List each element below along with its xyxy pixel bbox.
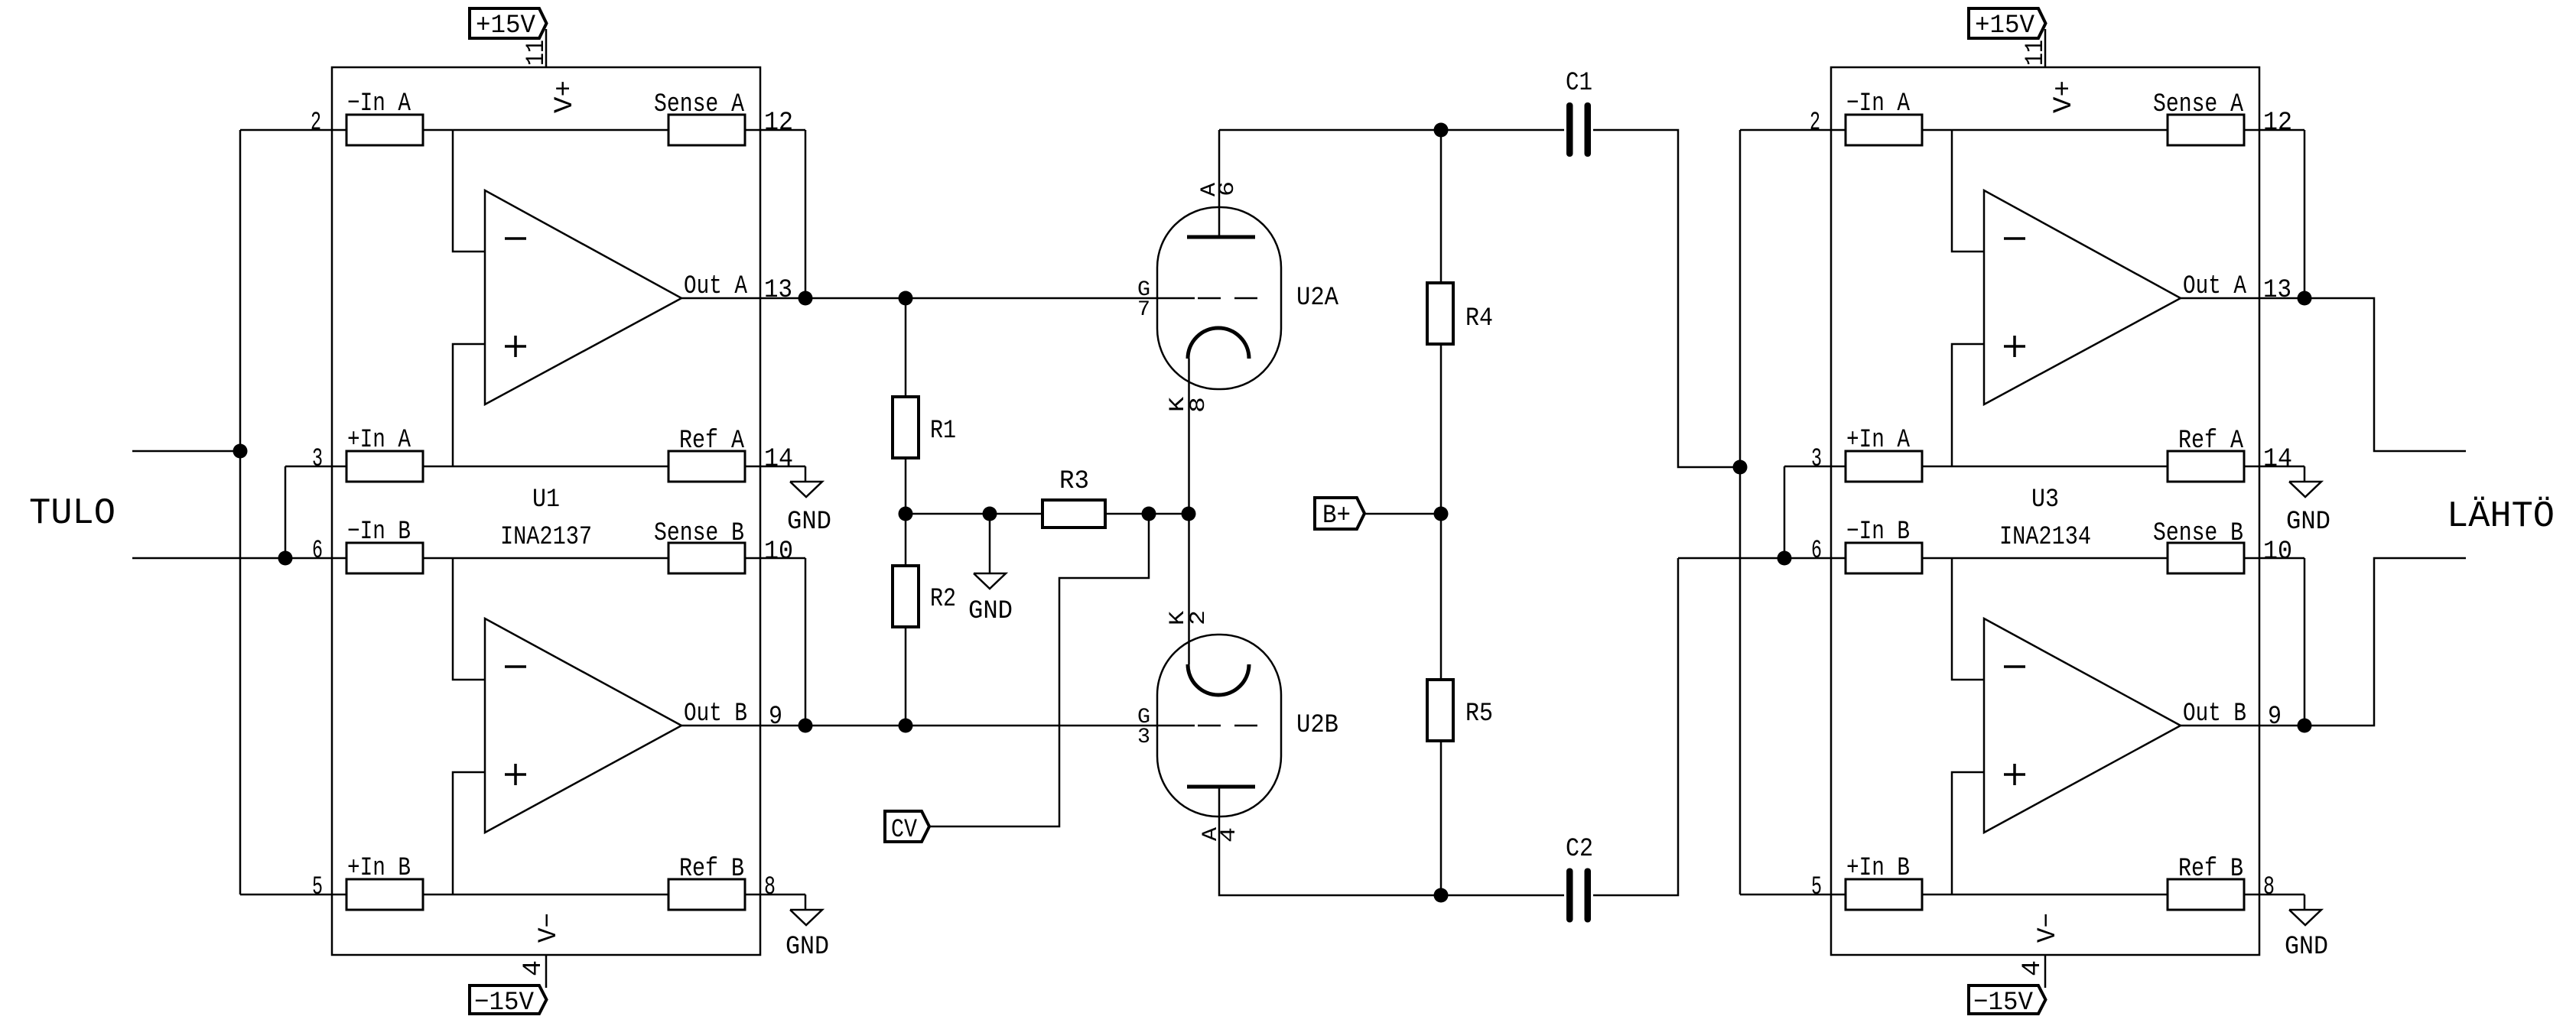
svg-text:INA2137: INA2137 [500,523,592,552]
svg-text:14: 14 [2263,445,2292,474]
svg-text:R4: R4 [1465,304,1493,333]
wire pin5 row (+In B) U3 [1740,894,2304,896]
svg-text:U2A: U2A [1296,284,1339,313]
svg-text:−In B: −In B [347,518,411,547]
wire pin2 row (-In A) U1 [240,129,805,131]
svg-text:INA2134: INA2134 [1999,523,2091,552]
svg-text:C2: C2 [1566,835,1593,864]
junction rail / cathodes [1182,507,1196,521]
wire input 1 from TULO [132,450,240,453]
svg-text:8: 8 [2263,873,2275,902]
wire -inA stub U1 [453,130,485,252]
svg-text:R5: R5 [1465,700,1493,729]
wire V- pin 4 U3 [2044,955,2047,988]
wire +inB stub U3 [1952,772,1984,895]
wire Ref A drop to GND (U3) [2304,466,2306,482]
junction B+ / R4 / R5 [1434,507,1449,521]
junction input1/left vertical [233,444,248,459]
wire Ref B drop to GND (U1) [805,895,807,910]
wire pin6 row (-In B) U1 / input 2 from TULO [132,557,805,560]
wire Ref A drop to GND (U1) [805,466,807,482]
wire rail to GND [989,514,991,573]
svg-text:−In A: −In A [1846,89,1910,119]
svg-text:Out B: Out B [2183,700,2246,729]
junction Sense A / Out A (U1) [798,291,813,306]
svg-text:−In A: −In A [347,89,411,119]
triode U2A envelope [1157,207,1281,389]
svg-text:U1: U1 [532,485,560,515]
svg-text:4: 4 [1218,827,1241,843]
wire C1 to U3 input A [1593,130,1740,467]
op-amp A plus mark U1 [505,345,526,348]
svg-text:6: 6 [1811,537,1822,566]
wire pin3 jog vertical right [1784,466,1786,558]
svg-text:+15V: +15V [1975,11,2035,41]
resistor R2 [905,514,907,566]
wire Out A (U3) to LAHTO upper [2181,298,2466,451]
op-amp A triangle U1 [485,190,681,404]
svg-text:Sense B: Sense B [654,519,744,548]
svg-text:Out A: Out A [2183,272,2246,301]
capacitor C1 [1566,102,1573,157]
pin box Ref B U3 (pin 8) [2168,879,2244,910]
svg-text:+In B: +In B [1846,854,1910,883]
svg-text:14: 14 [764,445,793,474]
svg-text:U3: U3 [2031,485,2059,515]
wire cathode rail left of R3 [906,513,1042,515]
power flag -15V U1 [470,985,547,1014]
svg-text:4: 4 [519,960,548,976]
svg-text:12: 12 [764,109,793,138]
svg-text:−15V: −15V [474,989,535,1018]
junction R2 / Out B [899,719,913,733]
wire Sense B drop to Out B (U3) [2304,558,2306,726]
triode U2B envelope [1157,635,1281,817]
power flag B+ [1315,498,1364,529]
op-amp B minus mark U1 [505,665,526,668]
svg-text:−15V: −15V [1973,989,2034,1018]
svg-text:8: 8 [1187,397,1211,413]
svg-text:GND: GND [785,933,829,962]
svg-text:11: 11 [2021,40,2051,66]
wire vertical pin2-pin5 bus right [1739,130,1742,895]
pin box Sense A U3 (pin 12) [2168,115,2244,145]
svg-text:Ref B: Ref B [2178,855,2243,884]
wire +inB stub U1 [453,772,485,895]
pin box +In B U1 (pin 5) [346,879,423,910]
svg-text:Sense A: Sense A [654,90,744,119]
op-amp A plus mark U3 [2004,345,2025,348]
svg-text:Out B: Out B [684,700,747,729]
IC body U1 (INA2137) [332,67,760,955]
svg-text:GND: GND [2286,508,2330,537]
svg-text:2: 2 [311,109,321,138]
pin box Ref A U1 (pin 14) [668,451,745,482]
IC body U3 (INA2134) [1831,67,2259,955]
pin box Sense B U1 (pin 10) [668,543,745,573]
svg-text:10: 10 [764,537,793,567]
wire Out B (U3) to LAHTO lower [2181,558,2466,726]
svg-text:Ref A: Ref A [2178,427,2243,456]
wire pin5 row (+In B) U1 [240,894,805,896]
pin box +In A U1 (pin 3) [346,451,423,482]
svg-text:7: 7 [1137,298,1150,322]
pin box Ref A U3 (pin 14) [2168,451,2244,482]
wire V+ pin 11 U1 [545,29,548,67]
svg-text:GND: GND [2285,933,2328,962]
op-amp B plus mark U1 [505,773,526,776]
wire CV to rail [929,514,1149,826]
capacitor C2 [1566,869,1573,923]
svg-text:GND: GND [968,597,1013,626]
ground symbol Ref B (U1) [790,910,822,925]
svg-text:10: 10 [2263,537,2292,567]
resistor R1 [905,298,907,397]
svg-text:2: 2 [1187,610,1211,625]
svg-text:13: 13 [2263,276,2291,305]
svg-text:3: 3 [1137,726,1150,749]
wire +inA stub U3 [1952,344,1984,466]
wire Sense B drop to Out B (U1) [805,558,807,726]
wire U2B cathode pin 2 to rail [1188,514,1190,664]
op-amp A triangle U3 [1984,190,2181,404]
pin box -In B U1 (pin 6) [346,543,423,573]
svg-text:2: 2 [1810,109,1820,138]
svg-text:3: 3 [312,445,323,474]
junction C2 feed / pin3 jog right [1778,551,1792,566]
svg-text:R2: R2 [930,585,956,614]
svg-text:Ref B: Ref B [679,855,744,884]
svg-text:TULO: TULO [29,493,115,534]
ground symbol Ref A (U3) [2289,482,2321,497]
resistor R5 [1440,514,1442,680]
wire -inB stub U1 [453,558,485,680]
svg-text:6: 6 [1216,181,1240,196]
op-amp B plus mark U3 [2004,773,2025,776]
wire U2A anode pin 6 [1218,130,1221,237]
wire V- pin 4 U1 [545,955,548,988]
svg-text:GND: GND [787,508,831,537]
svg-text:9: 9 [2268,703,2282,732]
junction anode bottom / R5 [1434,888,1449,903]
op-amp B triangle U1 [485,619,681,833]
svg-text:6: 6 [312,537,323,566]
junction rail / CV riser [1142,507,1156,521]
triode U2A cathode arc [1188,328,1249,359]
pin box -In A U3 (pin 2) [1846,115,1922,145]
svg-text:11: 11 [522,40,551,66]
svg-text:B+: B+ [1322,502,1351,531]
wire vertical pin2-pin5 bus left [239,130,242,895]
svg-text:5: 5 [312,873,323,902]
svg-text:R1: R1 [930,417,956,446]
svg-text:+In B: +In B [347,854,411,883]
svg-text:8: 8 [764,873,776,902]
junction C1 feed / right vertical [1733,460,1748,475]
svg-text:9: 9 [769,703,782,732]
triode U2A anode plate [1187,235,1255,239]
triode U2B grid dashes [1198,725,1221,727]
power flag +15V U3 [1969,8,2046,38]
wire pin2 row (-In A) U3 [1740,129,2304,131]
resistor R3 [1042,500,1105,528]
wire Ref B drop to GND (U3) [2304,895,2306,910]
pin box +In B U3 (pin 5) [1846,879,1922,910]
junction Sense B / Out B (U1) [798,719,813,733]
op-amp A minus mark U3 [2004,237,2025,240]
op-amp B triangle U3 [1984,619,2181,833]
wire V+ pin 11 U3 [2044,29,2047,67]
svg-text:−In B: −In B [1846,518,1910,547]
junction Sense A / Out A (U3) [2298,291,2312,306]
svg-text:5: 5 [1811,873,1822,902]
svg-text:Out A: Out A [684,272,747,301]
svg-text:4: 4 [2018,960,2047,976]
ground symbol mid rail [974,573,1006,589]
pin box +In A U3 (pin 3) [1846,451,1922,482]
wire pin3 row (+In A) U1 [285,466,805,468]
wire Out A (U1) to U2A grid [681,297,1195,300]
wire cathode rail right of R3 [1105,513,1189,515]
wire +inA stub U1 [453,344,485,466]
wire pin3 row (+In A) U3 [1784,466,2304,468]
triode U2A grid dashes [1198,297,1221,300]
junction rail GND branch [983,507,997,521]
junction Out A / R1 [899,291,913,306]
svg-text:U2B: U2B [1296,711,1338,740]
wire C2 to U3 input B [1593,558,1678,895]
net flag CV [885,811,929,842]
wire -inB stub U3 [1952,558,1984,680]
svg-text:Ref A: Ref A [679,427,744,456]
wire U2B anode pin 4 [1219,787,1564,895]
svg-text:R3: R3 [1059,467,1089,496]
svg-text:12: 12 [2263,109,2292,138]
wire Out B (U1) to U2B grid [681,725,1195,727]
wire pin6 row (-In B) U3 [1678,557,2304,560]
svg-text:V+: V+ [551,80,580,113]
triode U2B cathode arc [1188,664,1249,695]
junction Sense B / Out B (U3) [2298,719,2312,733]
resistor R4 [1440,130,1442,283]
svg-text:C1: C1 [1566,69,1592,98]
pin box Sense A U1 (pin 12) [668,115,745,145]
op-amp B minus mark U3 [2004,665,2025,668]
pin box Sense B U3 (pin 10) [2168,543,2244,573]
power flag +15V U1 [470,8,547,38]
svg-text:+In A: +In A [1846,426,1910,455]
wire -inA stub U3 [1952,130,1984,252]
junction anode top / R4 [1434,123,1449,138]
wire U2A cathode pin 8 to rail [1188,359,1190,514]
svg-text:13: 13 [764,276,792,305]
svg-text:3: 3 [1811,445,1822,474]
wire U2A anode to C1 [1219,129,1564,131]
ground symbol Ref B (U3) [2289,910,2321,925]
svg-text:+In A: +In A [347,426,411,455]
svg-text:V−: V− [535,913,564,943]
triode U2B anode plate [1187,785,1255,789]
svg-text:V+: V+ [2050,80,2079,113]
svg-text:CV: CV [891,816,917,845]
wire Sense A drop to Out A (U3) [2304,130,2306,298]
wire pin3 jog vertical left [285,466,287,558]
pin box -In B U3 (pin 6) [1846,543,1922,573]
svg-text:V−: V− [2034,913,2063,943]
wire Sense A drop to Out A (U1) [805,130,807,298]
svg-text:LÄHTÖ: LÄHTÖ [2447,496,2555,537]
svg-text:Sense B: Sense B [2153,519,2243,548]
pin box -In A U1 (pin 2) [346,115,423,145]
svg-text:Sense A: Sense A [2153,90,2243,119]
svg-text:+15V: +15V [476,11,536,41]
junction pin3 jog on input 2 [278,551,293,566]
junction R1/R2/rail [899,507,913,521]
power flag -15V U3 [1969,985,2046,1014]
pin box Ref B U1 (pin 8) [668,879,745,910]
ground symbol Ref A (U1) [790,482,822,497]
wire B+ to R4/R5 node [1364,513,1441,515]
op-amp A minus mark U1 [505,237,526,240]
